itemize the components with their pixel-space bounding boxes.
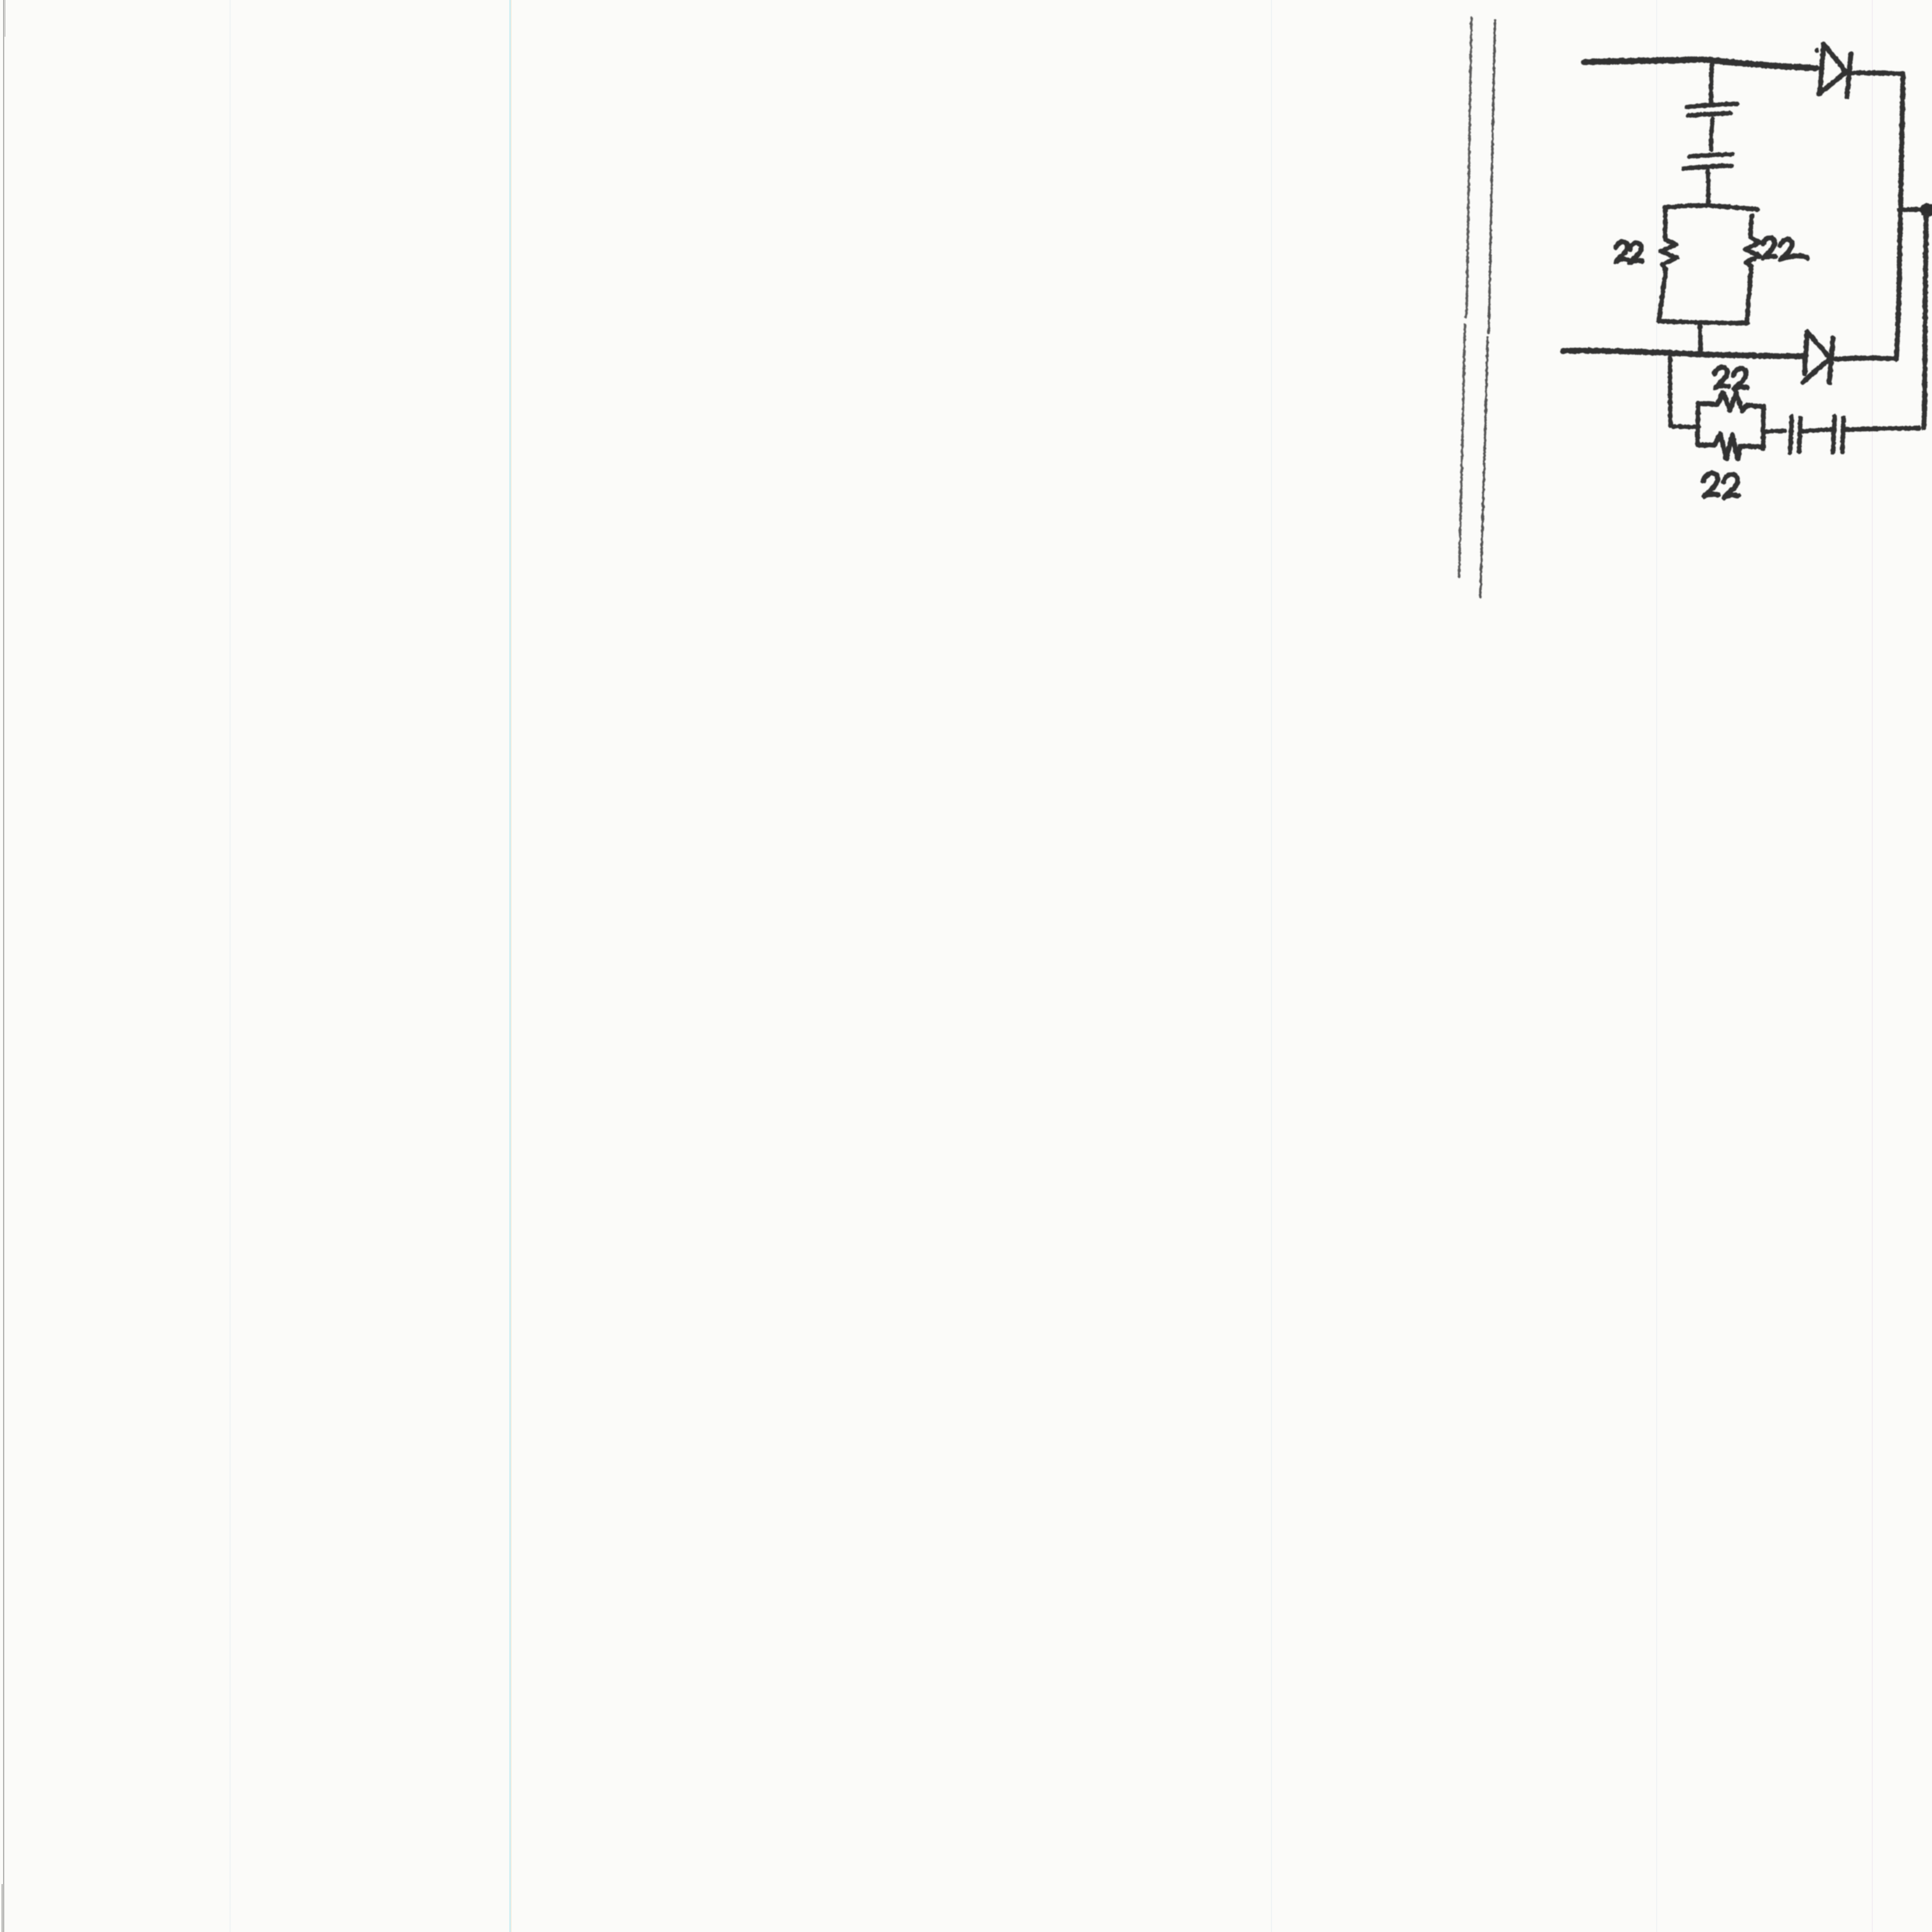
wire top input — [1584, 60, 1816, 68]
wire node A down to RC branch — [1924, 215, 1926, 428]
wire node A stub — [1900, 209, 1921, 210]
resistor R3 22 (top of box) — [1698, 392, 1764, 411]
resistor R4 22 (bottom of box) — [1697, 434, 1764, 459]
wire bottom input — [1563, 350, 1803, 356]
wire RC box left edge — [1697, 403, 1698, 444]
wire D1 cathode to node A — [1852, 73, 1903, 74]
wire stub top input to capacitor C1 — [1711, 62, 1712, 102]
wire C4 to node A branch — [1845, 428, 1919, 430]
resistor R1 22 (left leg of box) — [1659, 209, 1677, 321]
capacitor C3 (series, lower branch) — [1790, 417, 1801, 452]
wire RC box to capacitor C3 — [1764, 431, 1785, 432]
wire D2 cathode to node A — [1836, 358, 1893, 359]
diode D1 — [1817, 44, 1851, 97]
capacitor C2 (series) — [1684, 154, 1732, 168]
label 22 for R1 — [1616, 242, 1642, 263]
resistor R2 22 (right leg of box) — [1745, 216, 1760, 322]
label 22 for R2 — [1763, 238, 1808, 260]
wire resistor box bottom edge — [1659, 321, 1748, 323]
transformer secondary line 2 — [1480, 20, 1495, 597]
wire RC box right edge — [1763, 407, 1764, 449]
wire link C2 to resistor box — [1708, 171, 1708, 206]
wire resistor box top edge — [1665, 206, 1758, 209]
capacitor C1 (series) — [1687, 104, 1737, 116]
wire stub box to bottom input — [1700, 324, 1701, 351]
diode D2 — [1803, 332, 1833, 383]
wire bottom input down to RC box — [1670, 357, 1699, 427]
wire between C3 and C4 — [1801, 430, 1831, 431]
transformer secondary line 1 — [1459, 18, 1471, 577]
capacitor C4 (series, lower branch) — [1833, 417, 1844, 452]
wire node A vertical (D1 cathode to D2 cathode) — [1896, 74, 1903, 359]
label 22 for R4 — [1703, 473, 1738, 498]
wire link C1 to C2 — [1711, 118, 1713, 150]
label 22 for R3 — [1714, 367, 1747, 389]
junction node A — [1920, 203, 1932, 216]
